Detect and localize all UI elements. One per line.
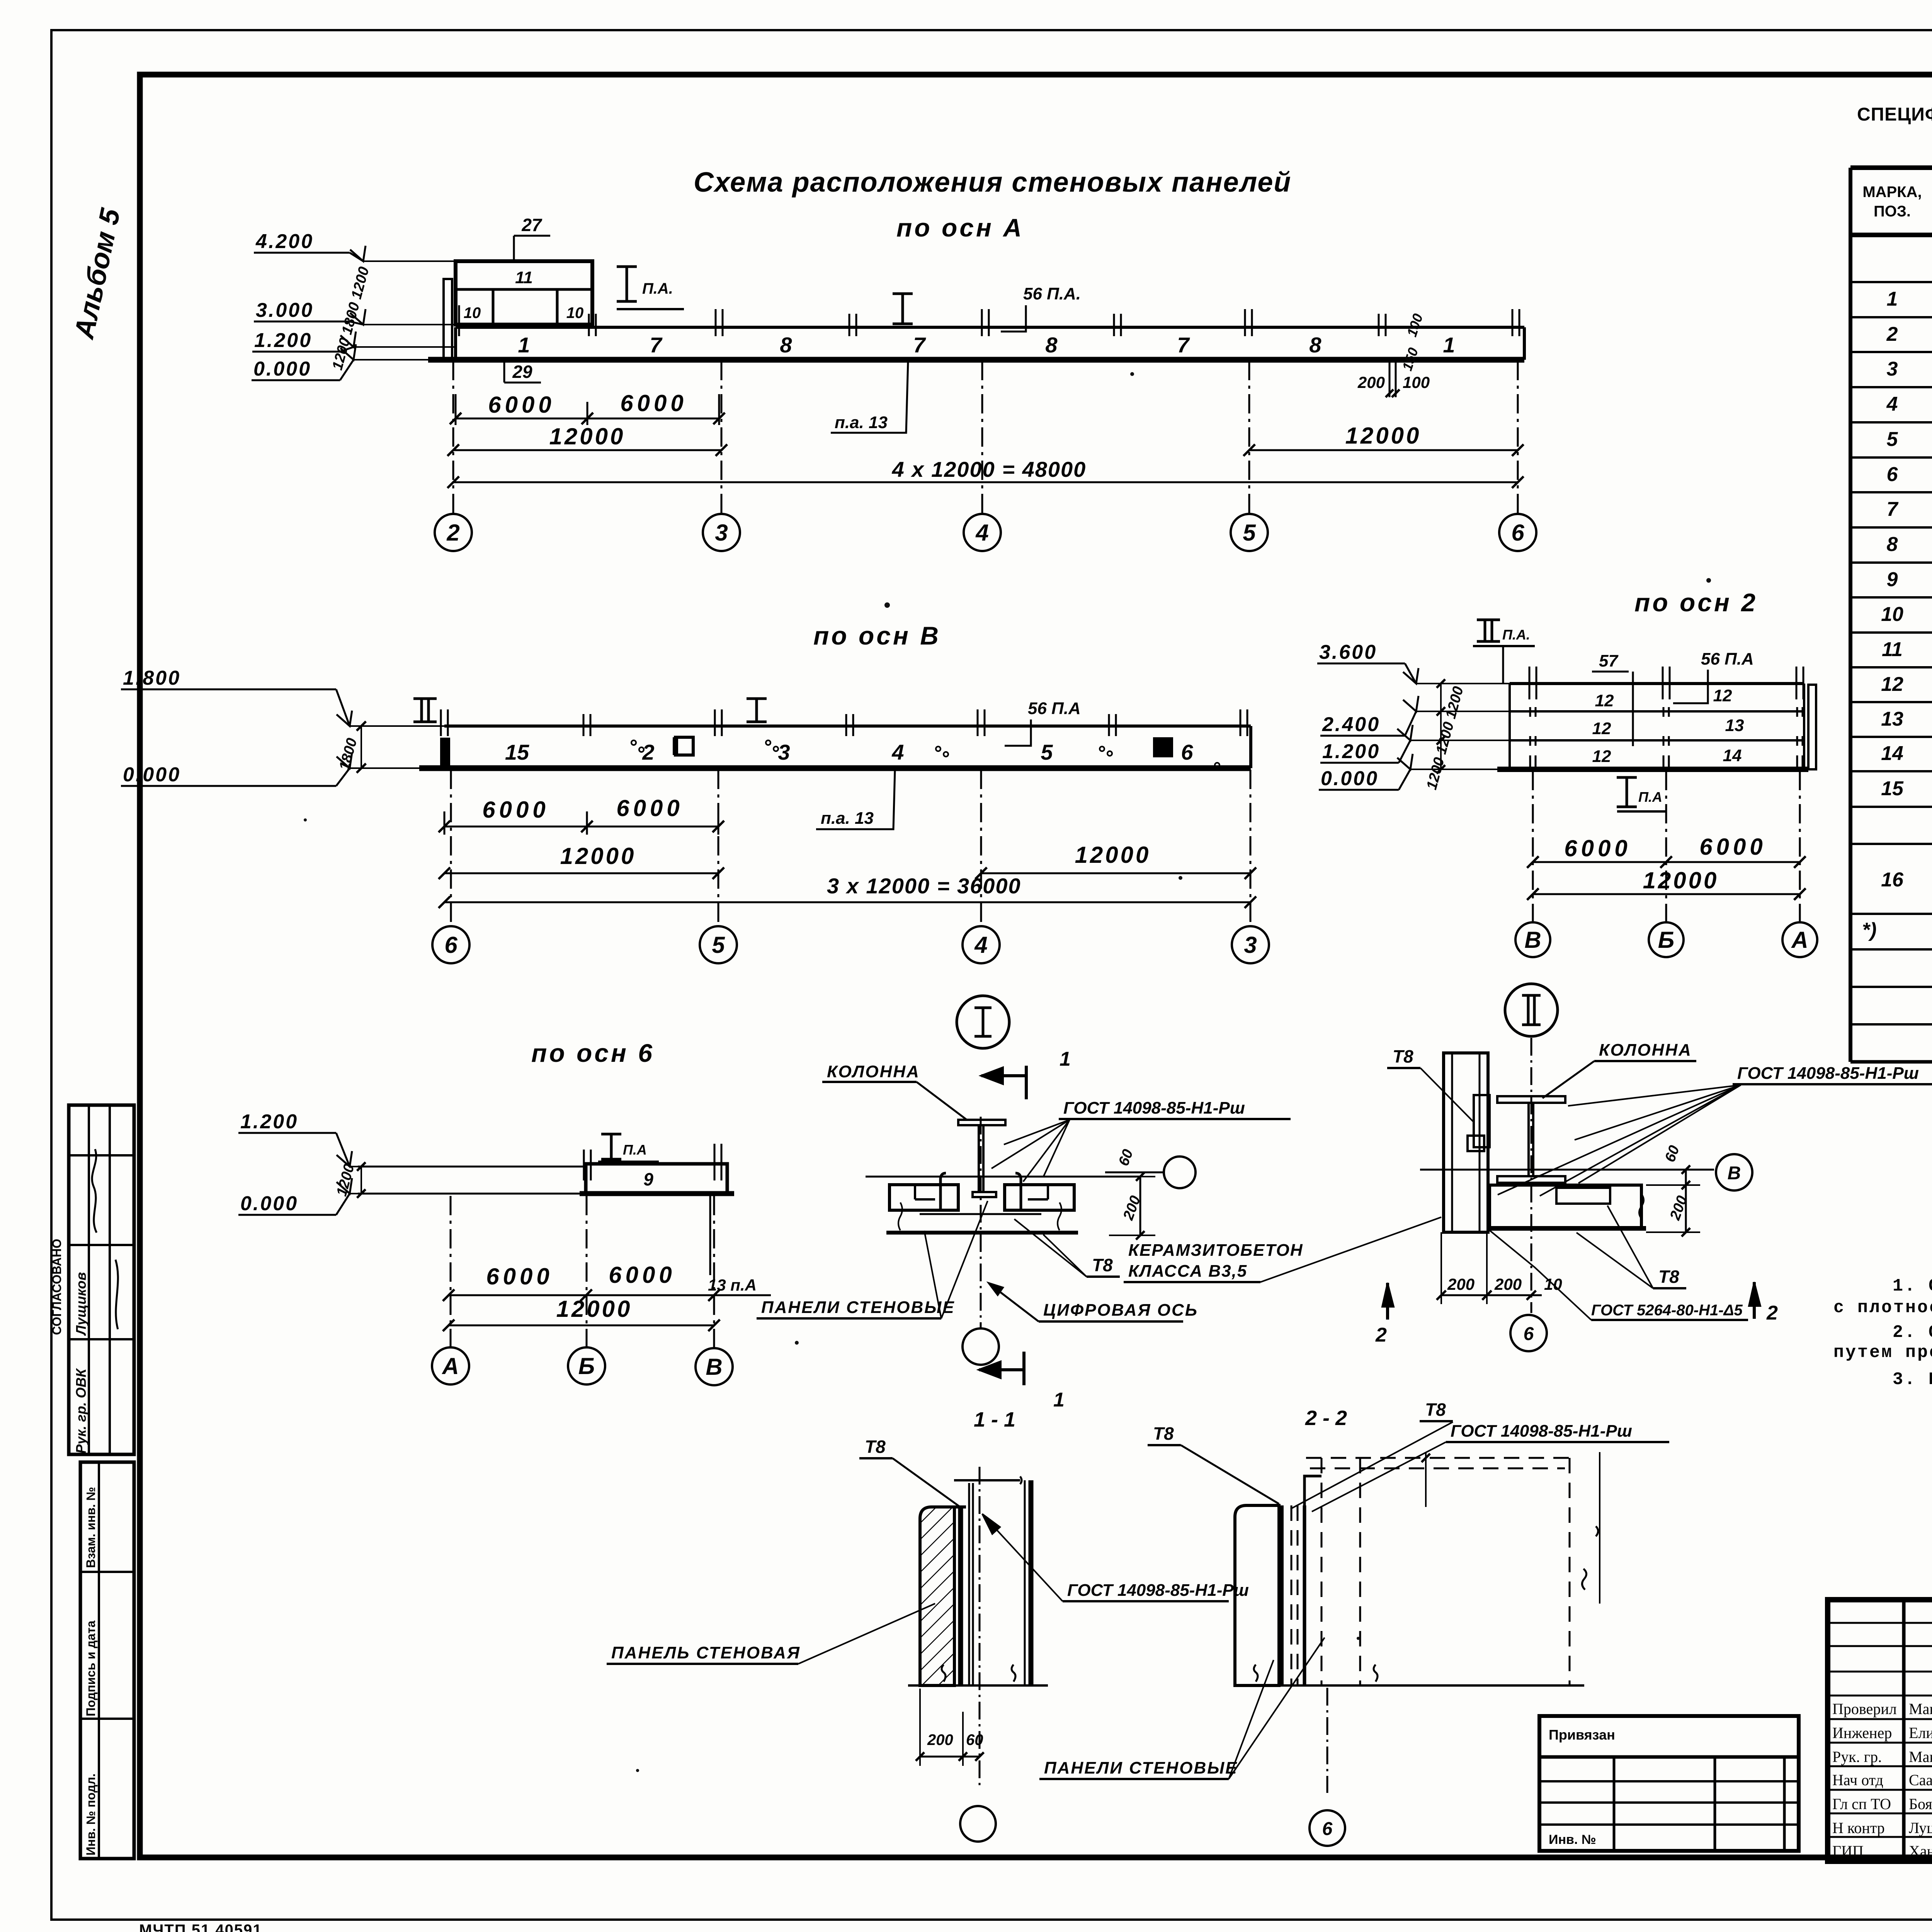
svg-text:В: В [706, 1354, 722, 1380]
svg-text:ГОСТ 14098-85-Н1-Рш: ГОСТ 14098-85-Н1-Рш [1451, 1422, 1632, 1440]
svg-text:12: 12 [1713, 686, 1732, 705]
svg-text:6: 6 [1511, 520, 1524, 546]
svg-text:10: 10 [1881, 603, 1903, 626]
svg-text:КОЛОННА: КОЛОННА [827, 1062, 920, 1081]
svg-text:8: 8 [780, 333, 792, 357]
svg-text:0.000: 0.000 [1321, 767, 1379, 790]
svg-text:0.000: 0.000 [240, 1192, 298, 1215]
svg-text:200: 200 [1357, 373, 1385, 391]
svg-text:Лущиков: Лущиков [73, 1272, 89, 1336]
svg-text:7: 7 [1177, 333, 1190, 357]
svg-text:16: 16 [1881, 869, 1904, 891]
svg-text:ГОСТ 5264-80-Н1-Δ5: ГОСТ 5264-80-Н1-Δ5 [1591, 1302, 1743, 1319]
svg-text:12000: 12000 [1643, 867, 1719, 893]
svg-text:3.600: 3.600 [1319, 641, 1377, 663]
svg-text:1: 1 [1060, 1048, 1071, 1070]
svg-text:12: 12 [1592, 747, 1611, 766]
svg-text:ПАНЕЛИ СТЕНОВЫЕ: ПАНЕЛИ СТЕНОВЫЕ [761, 1298, 955, 1317]
svg-text:1.200: 1.200 [1322, 740, 1380, 763]
svg-text:12000: 12000 [1075, 842, 1151, 868]
svg-text:200: 200 [1494, 1275, 1522, 1293]
svg-text:4: 4 [891, 740, 904, 764]
svg-text:П.А.: П.А. [1502, 627, 1530, 643]
svg-text:по осн В: по осн В [813, 621, 941, 650]
svg-text:Т8: Т8 [1658, 1267, 1679, 1287]
svg-text:ГОСТ 14098-85-Н1-Рш: ГОСТ 14098-85-Н1-Рш [1737, 1064, 1919, 1083]
svg-text:1.200: 1.200 [240, 1111, 298, 1133]
svg-text:15: 15 [1881, 777, 1904, 800]
svg-text:3: 3 [1887, 358, 1898, 380]
svg-text:9: 9 [643, 1169, 653, 1189]
svg-text:6: 6 [1322, 1819, 1333, 1839]
svg-text:КЕРАМЗИТОБЕТОН: КЕРАМЗИТОБЕТОН [1128, 1241, 1303, 1260]
svg-text:Гл сп ТО: Гл сп ТО [1832, 1795, 1891, 1813]
svg-text:2.400: 2.400 [1322, 713, 1380, 736]
svg-text:КЛАССА В3,5: КЛАССА В3,5 [1128, 1262, 1247, 1281]
svg-text:КОЛОННА: КОЛОННА [1599, 1041, 1692, 1060]
svg-text:СОГЛАСОВАНО: СОГЛАСОВАНО [50, 1239, 64, 1335]
svg-text:6000: 6000 [482, 797, 549, 823]
svg-text:3: 3 [715, 520, 728, 546]
svg-text:6: 6 [1524, 1324, 1534, 1344]
svg-text:13 п.А: 13 п.А [708, 1276, 757, 1294]
svg-text:10: 10 [566, 304, 584, 321]
svg-text:9: 9 [1887, 568, 1898, 591]
svg-text:2: 2 [642, 740, 654, 764]
svg-text:с плотностью в сухом состоянии: с плотностью в сухом состоянии ρ= 1100 к… [1833, 1298, 1932, 1318]
svg-text:6000: 6000 [488, 392, 555, 418]
svg-text:56 П.А: 56 П.А [1701, 650, 1754, 668]
svg-text:Подпись и дата: Подпись и дата [84, 1621, 98, 1716]
svg-text:7: 7 [913, 333, 926, 357]
svg-text:Луценко: Луценко [1909, 1819, 1932, 1837]
svg-text:200: 200 [927, 1731, 953, 1748]
svg-text:ЦИФРОВАЯ ОСЬ: ЦИФРОВАЯ ОСЬ [1043, 1301, 1198, 1320]
svg-text:Инв. №: Инв. № [1549, 1832, 1596, 1847]
svg-text:ГОСТ 14098-85-Н1-Рш: ГОСТ 14098-85-Н1-Рш [1063, 1099, 1245, 1117]
svg-text:11: 11 [515, 268, 533, 287]
svg-text:29: 29 [512, 362, 532, 382]
svg-text:13: 13 [1881, 708, 1903, 730]
svg-text:Нач отд: Нач отд [1832, 1771, 1883, 1789]
svg-text:П.А.: П.А. [642, 280, 673, 297]
svg-text:П.А: П.А [623, 1142, 647, 1158]
svg-text:10: 10 [464, 304, 481, 321]
svg-text:по осн 2: по осн 2 [1634, 588, 1758, 617]
svg-text:п.а. 13: п.а. 13 [835, 413, 888, 432]
svg-text:1: 1 [1443, 333, 1455, 357]
svg-text:8: 8 [1309, 333, 1321, 357]
svg-text:ПОЗ.: ПОЗ. [1874, 203, 1911, 220]
svg-text:1: 1 [518, 333, 530, 357]
svg-text:57: 57 [1599, 651, 1619, 670]
svg-text:Боярченко: Боярченко [1909, 1795, 1932, 1813]
svg-text:по осн А: по осн А [896, 213, 1024, 242]
svg-text:6: 6 [444, 932, 457, 958]
svg-text:60: 60 [966, 1731, 983, 1748]
svg-text:7: 7 [1887, 498, 1899, 520]
svg-text:12000: 12000 [560, 843, 636, 869]
svg-text:2: 2 [446, 520, 459, 546]
svg-text:8: 8 [1887, 533, 1898, 556]
svg-text:6000: 6000 [609, 1262, 675, 1288]
svg-text:6000: 6000 [486, 1264, 553, 1289]
svg-text:12000: 12000 [556, 1296, 633, 1322]
svg-text:1.200: 1.200 [254, 329, 312, 352]
svg-text:13: 13 [1725, 716, 1744, 735]
svg-text:1. Стеновые панели изготавлива: 1. Стеновые панели изготавливаются из ке… [1893, 1276, 1932, 1296]
svg-text:15: 15 [505, 740, 529, 764]
svg-text:Привязан: Привязан [1549, 1727, 1615, 1743]
svg-text:56 П.А: 56 П.А [1028, 699, 1081, 718]
svg-text:5: 5 [712, 932, 725, 958]
svg-text:ПАНЕЛЬ СТЕНОВАЯ: ПАНЕЛЬ СТЕНОВАЯ [611, 1643, 801, 1662]
svg-text:7: 7 [650, 333, 663, 357]
svg-text:3: 3 [778, 740, 790, 764]
svg-text:3 x 12000 = 36000: 3 x 12000 = 36000 [827, 874, 1021, 898]
svg-text:ПАНЕЛИ СТЕНОВЫЕ: ПАНЕЛИ СТЕНОВЫЕ [1044, 1759, 1238, 1777]
svg-text:8: 8 [1045, 333, 1058, 357]
svg-text:6000: 6000 [616, 795, 683, 821]
svg-text:4: 4 [975, 520, 988, 546]
svg-text:3.000: 3.000 [256, 299, 314, 321]
svg-text:56 П.А.: 56 П.А. [1023, 284, 1081, 303]
svg-text:27: 27 [521, 215, 543, 235]
svg-text:по осн 6: по осн 6 [531, 1039, 655, 1067]
svg-text:Н контр: Н контр [1832, 1819, 1885, 1837]
svg-text:А: А [441, 1353, 459, 1379]
svg-text:4: 4 [974, 932, 987, 958]
svg-text:4 x 12000 = 48000: 4 x 12000 = 48000 [892, 457, 1087, 481]
svg-text:Проверил: Проверил [1832, 1700, 1897, 1718]
svg-text:Рук. гр.: Рук. гр. [1832, 1748, 1882, 1765]
svg-text:2: 2 [1375, 1324, 1387, 1346]
svg-text:12000: 12000 [549, 423, 626, 449]
svg-text:Т8: Т8 [865, 1437, 886, 1457]
svg-text:12: 12 [1592, 719, 1611, 738]
svg-text:6000: 6000 [620, 390, 687, 416]
svg-text:Рук. гр. ОВК: Рук. гр. ОВК [73, 1368, 89, 1454]
svg-text:2: 2 [1886, 323, 1898, 345]
svg-text:6: 6 [1887, 463, 1898, 486]
svg-text:0.000: 0.000 [253, 358, 311, 380]
svg-text:Т8: Т8 [1153, 1423, 1174, 1444]
svg-text:*): *) [1862, 919, 1877, 941]
svg-text:п.а. 13: п.а. 13 [821, 809, 874, 828]
svg-text:6000: 6000 [1699, 834, 1766, 860]
svg-text:Макарова: Макарова [1909, 1748, 1932, 1765]
svg-text:2 - 2: 2 - 2 [1305, 1406, 1347, 1430]
svg-text:Взам. инв. №: Взам. инв. № [84, 1487, 98, 1568]
svg-text:1: 1 [1053, 1389, 1065, 1411]
svg-text:100: 100 [1403, 373, 1430, 391]
svg-text:Б: Б [578, 1353, 595, 1379]
svg-text:Инженер: Инженер [1832, 1724, 1892, 1742]
svg-text:Елисеева: Елисеева [1909, 1724, 1932, 1742]
svg-text:5: 5 [1041, 740, 1053, 764]
svg-text:ГОСТ 14098-85-Н1-Рш: ГОСТ 14098-85-Н1-Рш [1067, 1581, 1249, 1600]
svg-text:6: 6 [1181, 740, 1193, 764]
svg-text:Т8: Т8 [1092, 1255, 1113, 1275]
svg-text:Т8: Т8 [1393, 1046, 1413, 1066]
svg-text:12: 12 [1881, 673, 1903, 696]
svg-text:14: 14 [1881, 742, 1903, 765]
svg-text:Саакьянц: Саакьянц [1909, 1771, 1932, 1789]
svg-text:Инв. № подл.: Инв. № подл. [84, 1774, 98, 1855]
svg-text:4: 4 [1886, 393, 1898, 415]
svg-text:В: В [1728, 1163, 1741, 1184]
svg-text:В: В [1524, 927, 1541, 953]
svg-text:А: А [1791, 927, 1808, 953]
svg-text:ГИП: ГИП [1832, 1842, 1864, 1860]
svg-text:СПЕЦИФИКАЦИЯ К СХЕМЕ РАСПОЛОЖЕ: СПЕЦИФИКАЦИЯ К СХЕМЕ РАСПОЛОЖЕНИЯ [1857, 104, 1932, 125]
svg-text:14: 14 [1723, 746, 1742, 765]
svg-text:5: 5 [1243, 520, 1256, 546]
svg-text:0.000: 0.000 [123, 764, 181, 786]
svg-text:Схема расположения стеновых па: Схема расположения стеновых панелей [694, 167, 1291, 198]
svg-text:2: 2 [1766, 1302, 1778, 1324]
svg-text:путем просверливания отверстий: путем просверливания отверстий Ø25 мм с … [1833, 1343, 1932, 1362]
svg-text:5: 5 [1887, 428, 1898, 451]
svg-text:6000: 6000 [1564, 835, 1631, 861]
svg-text:1: 1 [1887, 288, 1898, 310]
svg-text:4.200: 4.200 [255, 230, 314, 253]
svg-text:Ханин: Ханин [1909, 1842, 1932, 1860]
svg-text:П.А: П.А [1638, 789, 1662, 805]
svg-text:3. Номера узлов на схемах даны: 3. Номера узлов на схемах даны по серии … [1893, 1370, 1932, 1389]
svg-text:МЧТП 51 40591: МЧТП 51 40591 [139, 1922, 262, 1932]
svg-text:12: 12 [1595, 691, 1614, 710]
svg-text:Т8: Т8 [1425, 1400, 1446, 1420]
svg-text:200: 200 [1447, 1275, 1475, 1293]
svg-text:Б: Б [1658, 927, 1674, 953]
svg-text:МАРКА,: МАРКА, [1862, 184, 1922, 201]
svg-text:1 - 1: 1 - 1 [974, 1408, 1015, 1431]
svg-text:11: 11 [1882, 638, 1903, 661]
svg-text:2. Отверстия в стеновых панеля: 2. Отверстия в стеновых панелях размерам… [1893, 1323, 1932, 1342]
svg-text:3: 3 [1244, 932, 1257, 958]
svg-text:12000: 12000 [1345, 423, 1422, 449]
svg-text:1.800: 1.800 [123, 667, 181, 689]
svg-text:Макарова: Макарова [1909, 1700, 1932, 1718]
